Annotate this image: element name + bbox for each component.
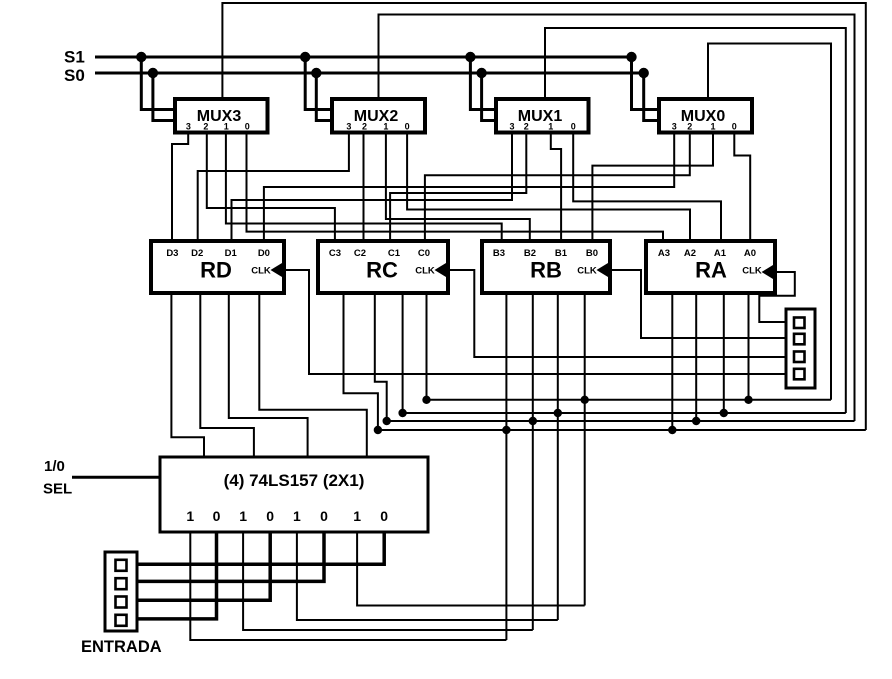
junction dot S1/MUX0 xyxy=(626,52,636,62)
junction dot bus B left corner xyxy=(383,417,391,425)
junction dot bus D left corner xyxy=(422,396,430,404)
svg-text:3: 3 xyxy=(346,122,351,132)
mux MUX3 xyxy=(175,99,268,133)
wire RB Q0 through bus D down xyxy=(584,293,586,606)
svg-text:0: 0 xyxy=(405,122,410,132)
wire RB Q1 through bus C down xyxy=(557,293,559,620)
wire MUX1 pin2 to RC.C1 xyxy=(390,132,526,241)
svg-text:0: 0 xyxy=(245,122,250,132)
svg-text:A0: A0 xyxy=(744,248,756,259)
wire MUX3 pin3 to RD.D3 xyxy=(172,132,188,241)
svg-text:C2: C2 xyxy=(354,248,366,259)
svg-text:0: 0 xyxy=(266,508,274,524)
svg-text:C3: C3 xyxy=(329,248,341,259)
wire S0 select stub to MUX0 xyxy=(644,73,659,121)
svg-text:2: 2 xyxy=(203,122,208,132)
svg-text:1: 1 xyxy=(186,508,194,524)
svg-text:B0: B0 xyxy=(586,248,598,259)
svg-text:RC: RC xyxy=(366,258,398,283)
net S0 bus line xyxy=(95,72,644,75)
mux MUX0 xyxy=(659,99,752,133)
wire feedback net C: bus to MUX1 top xyxy=(545,28,846,413)
svg-text:3: 3 xyxy=(672,122,677,132)
junction dot RA Q2 / bus B xyxy=(692,417,700,425)
wire feedback net A: bus to MUX3 top xyxy=(222,3,865,430)
wire MUX1 pin3 to RD.D1 xyxy=(232,132,513,241)
wire S1 select stub to MUX0 xyxy=(632,57,660,110)
wire RA Q2 to bus B xyxy=(695,293,697,421)
svg-text:1: 1 xyxy=(710,122,715,132)
wire bus A horizontal xyxy=(378,429,866,431)
multiplexer U1 74LS157 xyxy=(160,457,428,532)
wire MUX2 pin1 to RB.B2 xyxy=(386,132,530,241)
junction dot S0/MUX1 xyxy=(476,68,486,78)
wire RC Q2 to bus B xyxy=(375,293,387,421)
svg-text:1: 1 xyxy=(293,508,301,524)
svg-text:RA: RA xyxy=(695,258,727,283)
junction dot RA Q0 / bus D xyxy=(744,396,752,404)
wire bus B horizontal xyxy=(387,420,855,422)
wire feedback net B: bus to MUX2 top xyxy=(379,15,855,422)
wire MUX3 pin0 to RA.A3 xyxy=(247,132,664,241)
svg-text:CLK: CLK xyxy=(415,266,435,277)
wire S0 select stub to MUX1 xyxy=(482,73,496,121)
svg-text:0: 0 xyxy=(380,508,388,524)
junction dot S1/MUX3 xyxy=(136,52,146,62)
svg-text:(4) 74LS157 (2X1): (4) 74LS157 (2X1) xyxy=(224,471,365,490)
wire MUX0 pin2 to RC.C0 xyxy=(425,132,690,241)
svg-text:0: 0 xyxy=(571,122,576,132)
svg-text:ENTRADA: ENTRADA xyxy=(81,638,162,656)
wire RA CLK to connector row 1 xyxy=(759,272,795,322)
register RB xyxy=(482,241,610,293)
svg-text:CLK: CLK xyxy=(251,266,271,277)
svg-text:0: 0 xyxy=(320,508,328,524)
wire 74LS157 input 1d xyxy=(357,532,585,606)
net S1 bus line xyxy=(95,56,633,59)
wire S0 select stub to MUX3 xyxy=(153,73,175,121)
wire RA Q0 to bus D xyxy=(748,293,750,400)
svg-text:S0: S0 xyxy=(64,66,85,85)
svg-text:S1: S1 xyxy=(64,48,85,67)
svg-text:CLK: CLK xyxy=(577,266,597,277)
connector J2 ENTRADA header xyxy=(105,552,137,631)
mux MUX2 xyxy=(332,99,425,133)
svg-text:D0: D0 xyxy=(258,248,270,259)
junction dot bus C left corner xyxy=(398,409,406,417)
wire RD Q2 to 74LS157 top pin b xyxy=(200,293,254,457)
junction dot S0/MUX0 xyxy=(639,68,649,78)
wire RB Q2 through bus B down xyxy=(532,293,534,630)
wire 74LS157 input 1a xyxy=(190,532,506,640)
svg-text:3: 3 xyxy=(186,122,191,132)
wire feedback net D: bus to MUX0 top xyxy=(708,44,831,400)
svg-text:0: 0 xyxy=(732,122,737,132)
wire RC Q0 to bus D xyxy=(426,293,428,400)
svg-text:B3: B3 xyxy=(493,248,505,259)
connector J1 clock header xyxy=(786,309,815,388)
register RA xyxy=(646,241,775,293)
junction dot S0/MUX2 xyxy=(311,68,321,78)
svg-text:0: 0 xyxy=(213,508,221,524)
junction dot RA Q3 / bus A xyxy=(668,426,676,434)
svg-text:A3: A3 xyxy=(658,248,670,259)
wire RB Q3 through bus A down xyxy=(505,293,507,640)
svg-text:1: 1 xyxy=(548,122,553,132)
wire 74LS157 input 0c to ENTRADA pin2 xyxy=(137,532,324,581)
wire MUX1 pin1 to RB.B1 xyxy=(551,132,561,241)
svg-text:C0: C0 xyxy=(418,248,430,259)
wire S1 select stub to MUX3 xyxy=(141,57,175,110)
wire 74LS157 input 0d to ENTRADA pin1 xyxy=(137,532,384,564)
svg-text:2: 2 xyxy=(524,122,529,132)
svg-text:D3: D3 xyxy=(166,248,178,259)
wire MUX1 pin0 to RA.A1 xyxy=(573,132,721,241)
wire RB CLK to connector row 2 xyxy=(610,270,786,338)
junction dot RB Q2 / bus B xyxy=(529,417,537,425)
wire bus D horizontal xyxy=(427,399,832,401)
wire RC Q3 to bus A xyxy=(344,293,378,430)
svg-text:1: 1 xyxy=(383,122,388,132)
junction dot RB Q1 / bus C xyxy=(554,409,562,417)
wire MUX0 pin0 to RA.A0 xyxy=(734,132,750,241)
mux MUX1 xyxy=(496,99,589,133)
wire RD CLK to connector row 4 xyxy=(284,270,786,374)
svg-text:3: 3 xyxy=(509,122,514,132)
svg-text:1: 1 xyxy=(353,508,361,524)
svg-text:1: 1 xyxy=(239,508,247,524)
junction dot bus A left corner xyxy=(374,426,382,434)
wire bus C horizontal xyxy=(403,412,846,414)
svg-text:2: 2 xyxy=(687,122,692,132)
wire MUX0 pin3 to RD.D0 xyxy=(264,132,674,241)
wire MUX2 pin0 to RA.A2 xyxy=(407,132,690,241)
wire S1 select stub to MUX2 xyxy=(305,57,332,110)
wire RD Q1 to 74LS157 top pin c xyxy=(229,293,308,457)
wire S0 select stub to MUX2 xyxy=(316,73,332,121)
wire MUX2 pin2 to RC.C2 xyxy=(363,132,365,241)
junction dot S1/MUX1 xyxy=(465,52,475,62)
junction dot S0/MUX3 xyxy=(148,68,158,78)
junction dot RB Q0 / bus D xyxy=(581,396,589,404)
svg-text:2: 2 xyxy=(362,122,367,132)
wire 74LS157 input 0b to ENTRADA pin3 xyxy=(137,532,270,600)
wire 74LS157 input 0a to ENTRADA pin4 xyxy=(137,532,217,619)
svg-text:RB: RB xyxy=(530,258,562,283)
junction dot RA Q1 / bus C xyxy=(720,409,728,417)
svg-text:CLK: CLK xyxy=(742,266,762,277)
register RD xyxy=(151,241,284,293)
svg-text:RD: RD xyxy=(200,258,232,283)
junction dot RB Q3 / bus A xyxy=(502,426,510,434)
wire 74LS157 input 1c xyxy=(297,532,558,620)
wire MUX3 pin2 to RC.C3 xyxy=(207,132,335,241)
wire RD Q0 to 74LS157 top pin d xyxy=(259,293,367,457)
wire RC CLK to connector row 3 xyxy=(448,270,786,357)
register RC xyxy=(318,241,448,293)
wire SEL input xyxy=(72,476,160,479)
svg-text:MUX2: MUX2 xyxy=(354,108,399,125)
wire MUX0 pin1 to RB.B0 xyxy=(592,132,713,241)
wire RC Q1 to bus C xyxy=(402,293,404,413)
wire MUX2 pin3 to RD.D2 xyxy=(198,132,349,241)
svg-text:1/0: 1/0 xyxy=(44,458,65,475)
svg-text:SEL: SEL xyxy=(43,481,72,498)
wire S1 select stub to MUX1 xyxy=(470,57,496,110)
wire RD Q3 to 74LS157 top pin a xyxy=(171,293,204,457)
junction dot S1/MUX2 xyxy=(300,52,310,62)
wire 74LS157 input 1b xyxy=(243,532,533,630)
wire MUX3 pin1 to RB.B3 xyxy=(226,132,502,241)
svg-text:1: 1 xyxy=(224,122,229,132)
wire RA Q3 to bus A xyxy=(671,293,673,430)
wire RA Q1 to bus C xyxy=(723,293,725,413)
